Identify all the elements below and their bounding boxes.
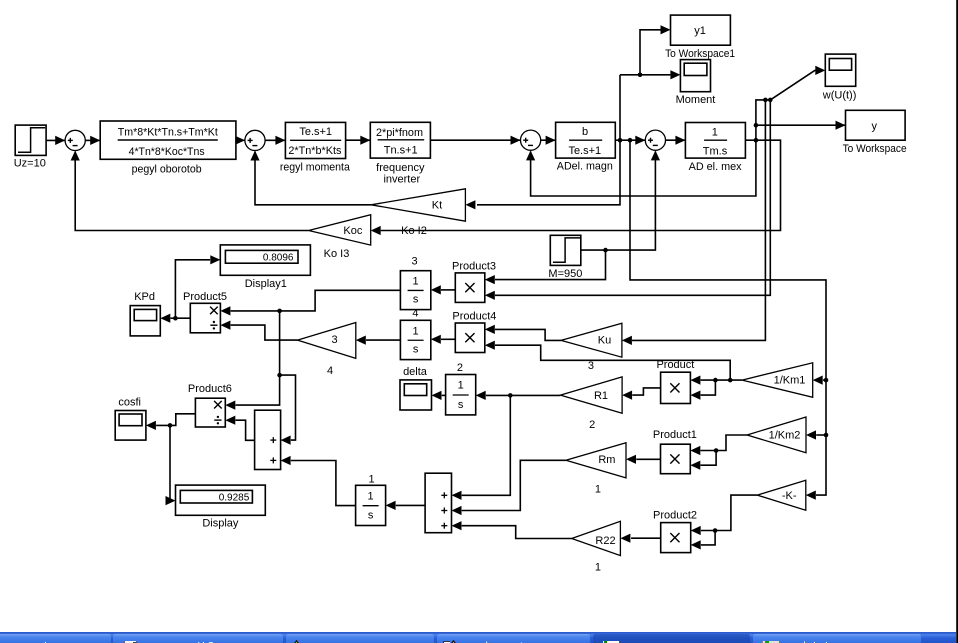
svg-text:s: s <box>458 399 464 411</box>
svg-text:y1: y1 <box>694 25 706 37</box>
svg-text:inverter: inverter <box>383 174 420 186</box>
svg-text:1: 1 <box>712 127 718 139</box>
svg-text:R1: R1 <box>594 390 608 402</box>
svg-text:delta: delta <box>403 366 428 378</box>
svg-text:Koc: Koc <box>343 225 362 237</box>
svg-text:cosfi: cosfi <box>118 397 141 409</box>
svg-text:3: 3 <box>331 334 337 346</box>
svg-text:Product1: Product1 <box>653 429 697 441</box>
svg-text:AD el. mex: AD el. mex <box>689 161 742 173</box>
svg-text:Te.s+1: Te.s+1 <box>568 145 601 157</box>
svg-text:3: 3 <box>588 360 594 372</box>
svg-text:M=950: M=950 <box>548 268 582 280</box>
svg-text:Product5: Product5 <box>183 291 227 303</box>
svg-text:Kt: Kt <box>432 199 442 211</box>
svg-text:Ko I3: Ko I3 <box>324 248 350 260</box>
svg-text:pegyl oborotob: pegyl oborotob <box>132 163 202 175</box>
svg-text:Product: Product <box>656 359 694 371</box>
svg-text:1: 1 <box>413 276 419 288</box>
svg-text:0.9285: 0.9285 <box>219 493 250 504</box>
svg-text:Moment: Moment <box>676 94 716 106</box>
svg-text:1: 1 <box>458 380 464 392</box>
svg-text:1/Km1: 1/Km1 <box>774 375 806 387</box>
svg-text:w(U(t)): w(U(t)) <box>822 90 857 102</box>
svg-text:Product4: Product4 <box>452 311 496 323</box>
svg-text:4: 4 <box>327 365 333 377</box>
svg-text:Display: Display <box>202 518 239 530</box>
svg-text:1: 1 <box>368 473 374 485</box>
svg-text:Product6: Product6 <box>188 383 232 395</box>
svg-text:To Workspace: To Workspace <box>843 143 907 155</box>
svg-text:Te.s+1: Te.s+1 <box>299 126 332 138</box>
svg-text:Rm: Rm <box>598 454 615 466</box>
svg-text:2: 2 <box>589 419 595 431</box>
svg-text:0.8096: 0.8096 <box>263 253 294 264</box>
svg-text:3: 3 <box>412 255 418 267</box>
svg-text:s: s <box>368 510 374 522</box>
svg-text:y: y <box>871 120 877 132</box>
svg-text:Tn.s+1: Tn.s+1 <box>384 145 418 157</box>
svg-text:s: s <box>413 344 419 356</box>
svg-text:s: s <box>413 294 419 306</box>
svg-text:Product2: Product2 <box>653 509 697 521</box>
svg-text:regyl momenta: regyl momenta <box>280 161 351 173</box>
svg-text:KPd: KPd <box>134 291 155 303</box>
svg-text:1/Km2: 1/Km2 <box>769 430 801 442</box>
svg-text:R22: R22 <box>595 535 615 547</box>
svg-text:1: 1 <box>595 484 601 496</box>
svg-text:1: 1 <box>413 325 419 337</box>
svg-text:Ko I2: Ko I2 <box>401 225 427 237</box>
svg-text:Tm*8*Kt*Tn.s+Tm*Kt: Tm*8*Kt*Tn.s+Tm*Kt <box>118 126 218 138</box>
svg-text:4*Tn*8*Koc*Tns: 4*Tn*8*Koc*Tns <box>129 146 205 158</box>
svg-text:Display1: Display1 <box>245 278 287 290</box>
svg-text:Tm.s: Tm.s <box>703 145 728 157</box>
svg-text:frequency: frequency <box>376 162 425 174</box>
svg-text:-K-: -K- <box>782 490 797 502</box>
svg-text:2*pi*fnom: 2*pi*fnom <box>376 127 423 139</box>
svg-text:Product3: Product3 <box>452 261 496 273</box>
svg-text:1: 1 <box>368 490 374 502</box>
svg-text:To Workspace1: To Workspace1 <box>665 48 735 60</box>
svg-text:4: 4 <box>412 308 418 320</box>
svg-text:Ku: Ku <box>598 335 611 347</box>
svg-text:Uz=10: Uz=10 <box>14 158 46 170</box>
svg-text:2*Tn*b*Kts: 2*Tn*b*Kts <box>288 145 341 157</box>
svg-text:b: b <box>582 126 588 138</box>
svg-text:ADel. magn: ADel. magn <box>557 161 613 173</box>
svg-text:1: 1 <box>595 561 601 573</box>
svg-text:2: 2 <box>457 362 463 374</box>
